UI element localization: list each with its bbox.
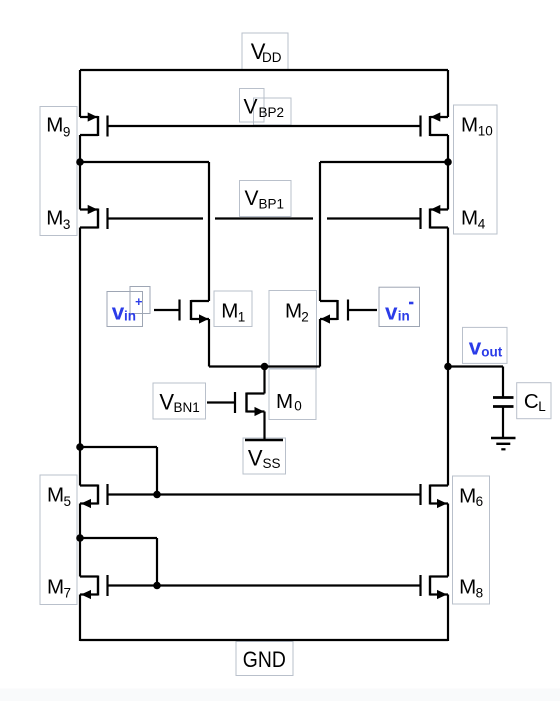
svg-text:V: V <box>248 445 263 470</box>
svg-text:GND: GND <box>243 647 286 672</box>
svg-text:7: 7 <box>64 585 72 600</box>
svg-text:M: M <box>285 300 302 323</box>
svg-text:BP2: BP2 <box>259 105 285 120</box>
svg-text:3: 3 <box>63 217 71 232</box>
svg-text:v: v <box>385 300 398 325</box>
svg-text:8: 8 <box>476 585 484 600</box>
svg-text:6: 6 <box>476 494 484 509</box>
svg-text:M: M <box>461 206 478 229</box>
svg-text:M: M <box>461 114 478 137</box>
svg-text:BP1: BP1 <box>259 197 285 212</box>
svg-text:M: M <box>47 484 64 507</box>
svg-text:M: M <box>46 114 63 137</box>
svg-text:BN1: BN1 <box>174 400 200 415</box>
svg-text:V: V <box>159 390 174 415</box>
svg-text:v: v <box>469 335 482 360</box>
svg-text:M: M <box>459 485 476 508</box>
svg-text:V: V <box>244 96 258 119</box>
svg-text:+: + <box>135 295 142 309</box>
svg-text:10: 10 <box>478 124 493 139</box>
svg-text:in: in <box>398 308 410 323</box>
svg-text:M: M <box>459 576 476 599</box>
svg-text:M: M <box>221 300 238 323</box>
svg-text:in: in <box>124 308 136 323</box>
svg-text:M: M <box>276 390 293 413</box>
svg-text:out: out <box>481 345 502 360</box>
svg-text:5: 5 <box>64 494 72 509</box>
svg-text:2: 2 <box>301 309 309 324</box>
svg-text:M: M <box>47 575 64 598</box>
svg-text:SS: SS <box>263 456 281 471</box>
svg-text:4: 4 <box>478 217 486 232</box>
svg-text:0: 0 <box>294 399 302 414</box>
svg-text:M: M <box>46 206 63 229</box>
svg-text:DD: DD <box>262 50 282 65</box>
svg-text:9: 9 <box>63 124 71 139</box>
svg-text:V: V <box>245 187 259 210</box>
svg-text:L: L <box>538 399 546 414</box>
svg-text:v: v <box>112 300 125 325</box>
svg-text:C: C <box>524 390 539 413</box>
svg-text:1: 1 <box>238 309 246 324</box>
